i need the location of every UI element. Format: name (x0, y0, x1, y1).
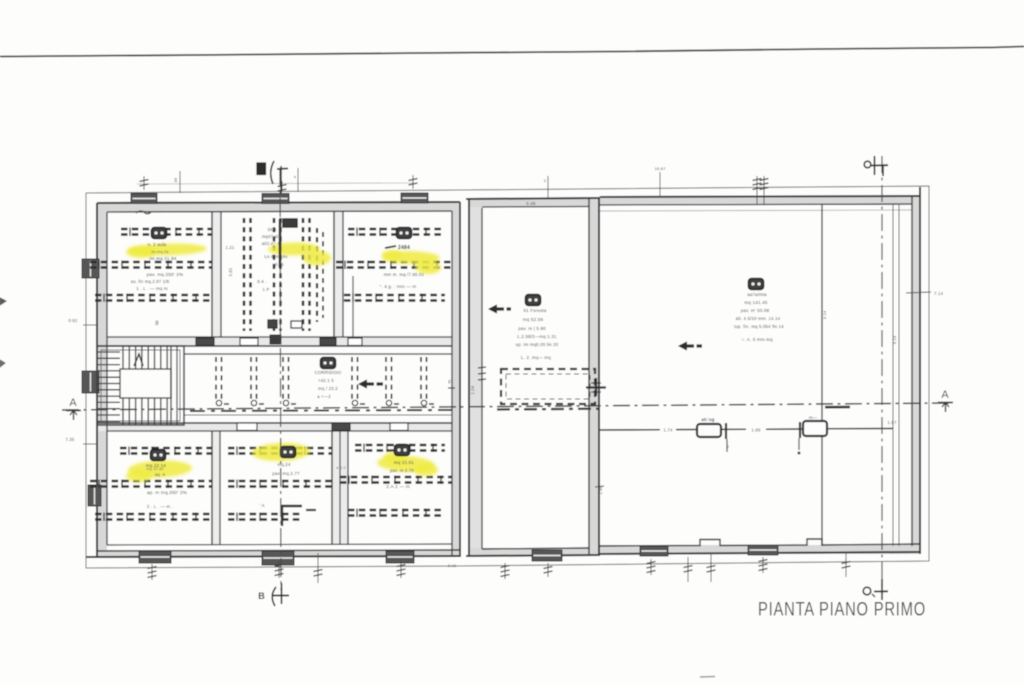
svg-text:16.67: 16.67 (654, 166, 666, 171)
svg-text:7.35: 7.35 (66, 437, 75, 442)
svg-text:mq 21.01: mq 21.01 (394, 460, 414, 465)
bottom center scan mark (700, 676, 715, 679)
corridor top wall door mark 2 (240, 338, 258, 346)
wall band hall right (912, 196, 920, 554)
room2 vertical dashed partial column 4 (316, 228, 318, 322)
middle room left wall inner (481, 208, 483, 549)
svg-text:pav. m | 5.80: pav. m | 5.80 (518, 326, 546, 331)
room6 dashed row 1 (355, 444, 445, 446)
left block bottom wall outer (86, 556, 460, 557)
middle room right wall outer (598, 197, 600, 556)
divider wall room4-room5 right line (219, 431, 221, 545)
corridor top wall door mark 3 (320, 338, 336, 346)
hall right wall inner (911, 197, 913, 546)
svg-text:aq. n: aq. n (155, 472, 166, 477)
divider wall room1-room2 right line (220, 211, 222, 337)
wall band bottom rooms top (97, 423, 452, 431)
page top rule line (0, 47, 1024, 57)
hall right wall tick 7.14 (906, 292, 931, 293)
top dimension chain line (137, 183, 413, 184)
middle room bottom wall outer (466, 555, 599, 556)
section marker B top flag (271, 161, 274, 184)
section marker B bottom flag (272, 587, 276, 606)
hall interior wall line seg4 (766, 428, 803, 430)
svg-text:8: 8 (155, 321, 159, 327)
bottom hall thin tick 3 (710, 553, 712, 582)
section marker A left arrow (66, 410, 81, 412)
svg-text:mm m. mq /7.65.01: mm m. mq /7.65.01 (384, 272, 425, 277)
room2 highlight yellow (268, 242, 320, 256)
wall band divider r2-r3 (334, 211, 343, 337)
bottom rooms top wall outer (97, 422, 452, 424)
room2 vertical dashed column 2 (273, 218, 276, 331)
wall band hall top (599, 196, 920, 205)
svg-text:1.21: 1.21 (226, 245, 235, 250)
room3 highlight yellow (382, 250, 440, 264)
svg-text:pav. mq.2.77: pav. mq.2.77 (272, 471, 300, 476)
left block rooms bottom inner line (107, 544, 452, 545)
left block right wall inner (451, 211, 453, 557)
svg-text:CORRIDOIO: CORRIDOIO (315, 370, 342, 375)
divider wall room5-room6 line c (347, 431, 349, 545)
svg-text:im mq 21.84: im mq 21.84 (150, 256, 177, 261)
hall door symbol right (803, 421, 827, 436)
middle room bottom wall inner (482, 548, 589, 549)
svg-text:B: B (258, 591, 265, 601)
room5 dashed row 1 right (296, 447, 332, 449)
svg-text:L.2.58/2—mq 1.31: L.2.58/2—mq 1.31 (517, 334, 557, 339)
section line B-B dash-dot (280, 168, 281, 590)
divider wall room5-room6 line a (331, 431, 333, 545)
room1 highlight yellow (129, 242, 207, 256)
room5 dashed row 3 (228, 513, 300, 515)
svg-text:A: A (69, 397, 77, 409)
divider wall room4-room5 left line (211, 431, 213, 545)
bottom wall tick 4 (400, 562, 402, 578)
top wall dim 16.67 (659, 172, 661, 197)
left block left wall inner (106, 212, 108, 545)
bottom hall tick 1 (650, 559, 652, 575)
svg-text:5.49: 5.49 (526, 201, 536, 206)
left block top wall outer line (97, 202, 460, 203)
svg-text:mq 141.45: mq 141.45 (744, 300, 767, 305)
svg-text:aa7a/mta: aa7a/mta (747, 292, 767, 297)
middle room top wall inner (482, 206, 589, 209)
corridor bottom wall door mark 3 (390, 423, 408, 431)
room3 dashed row 3 (344, 294, 445, 296)
wall band middle room right (589, 197, 599, 556)
wall band left block left (97, 203, 107, 557)
svg-text:“. 4.g. : mm — m: “. 4.g. : mm — m (380, 284, 417, 289)
window top wall left (131, 194, 157, 204)
room3 dashed row 1 (348, 228, 445, 230)
svg-text:mq47 al: mq47 al (262, 234, 278, 239)
section line A-A dash-dot (62, 403, 950, 410)
bottom rooms top wall inner (107, 430, 452, 432)
hall interior wall line seg5 (827, 428, 893, 430)
room1 dashed row 1 (121, 228, 212, 230)
left margin scan mark upper (0, 298, 6, 305)
svg-text:4.0 2: 4.0 2 (336, 466, 345, 470)
corridor door circles (216, 400, 221, 405)
svg-text:1.74: 1.74 (663, 428, 673, 433)
hall door symbol left (697, 424, 721, 437)
corridor arrow (358, 379, 367, 388)
hall bottom wall inner (600, 539, 920, 546)
top wall tick near room2 (297, 168, 299, 192)
svg-text:A: A (941, 389, 949, 401)
corridor vertical dashed columns (215, 357, 217, 399)
room1 top squiggle (136, 211, 151, 214)
hall bottom window left (640, 546, 668, 556)
svg-text:2.12: 2.12 (448, 563, 457, 568)
svg-text:7.14: 7.14 (934, 291, 944, 296)
hall interior wall line seg3 (721, 428, 746, 430)
left block top wall inner line (107, 211, 452, 212)
hall left wall line (598, 197, 600, 556)
middle room dashed storage rect inner (506, 374, 590, 399)
room5 highlight yellow (252, 442, 311, 462)
window bottom wall left (139, 551, 171, 563)
svg-text:Ln.4/mq.4u: Ln.4/mq.4u (265, 254, 288, 259)
room2 bottom dark mark b (291, 321, 302, 328)
divider wall room1-room2 left line (211, 211, 213, 337)
svg-text:+42.1 5: +42.1 5 (318, 378, 334, 383)
top wall tick right window (412, 175, 414, 189)
left block right wall outer (459, 202, 461, 557)
hall bottom wall outer (600, 552, 920, 554)
top wall double tick hall (756, 176, 758, 204)
svg-text:1 . L . — mq m: 1 . L . — mq m (136, 286, 168, 291)
svg-text:PIANTA PIANO PRIMO: PIANTA PIANO PRIMO (758, 600, 926, 621)
middle room top wall outer (466, 198, 599, 199)
svg-text:iup. fin. mq 5.054 fin 14: iup. fin. mq 5.054 fin 14 (734, 324, 784, 329)
room2 vertical dashed column 1 (243, 218, 246, 331)
room6 dashed row 3 (348, 509, 445, 511)
section marker A right arrow (938, 402, 953, 404)
corridor top wall door mark 4 (348, 338, 362, 346)
svg-text:a +—2: a +—2 (317, 394, 331, 399)
bottom hall tick 4 (762, 557, 764, 573)
room4 dashed row 1 (120, 447, 212, 449)
window left wall upper (82, 259, 99, 278)
svg-text:8.4 .: 8.4 . (257, 279, 267, 284)
room4 label symbol (151, 450, 166, 461)
svg-text:ap. m mq.250' 2%: ap. m mq.250' 2% (147, 490, 187, 495)
svg-text:45: 45 (173, 177, 178, 182)
svg-text:pav. m' 50.08: pav. m' 50.08 (741, 308, 770, 313)
top rooms bottom wall second line (97, 345, 452, 347)
hall bottom window right (748, 545, 778, 555)
section line A-A bold segment corridor (190, 410, 452, 411)
room5 label symbol (281, 447, 296, 458)
room2 vertical dashed column 3 (302, 218, 305, 331)
section line B bold segment room2 (279, 219, 282, 268)
hall arrow (678, 341, 687, 350)
wall band middle room top (469, 199, 599, 207)
room1 label symbol (152, 228, 167, 239)
svg-text:mq,24: mq,24 (277, 462, 291, 467)
hall right wall outer (919, 187, 921, 554)
section marker C top (864, 161, 871, 168)
section line A-A bold segment hall (825, 406, 850, 409)
room3 label symbol (397, 228, 412, 239)
stairwell (97, 346, 184, 425)
svg-text:F: F (448, 380, 451, 386)
corridor bottom wall door mark 2 (332, 423, 350, 431)
room2 dark box top (283, 219, 297, 227)
top wall thin dim line 1 (179, 171, 181, 193)
svg-text:1 P: 1 P (263, 287, 270, 292)
top wall tick middle room (547, 176, 549, 198)
svg-text:2484: 2484 (398, 245, 410, 251)
svg-text:1.97: 1.97 (887, 420, 897, 425)
svg-text:2 . L . — m .: 2 . L . — m . (147, 504, 173, 509)
wall band left block bottom (97, 550, 460, 557)
corridor top line (184, 353, 452, 355)
bottom tick middle room b (547, 563, 549, 577)
bottom wall tick 2 (278, 562, 280, 578)
window left wall room4 (88, 485, 101, 506)
svg-text:alt. 4.5/10 mm. 14.14: alt. 4.5/10 mm. 14.14 (736, 316, 781, 321)
room4 dashed row 2 (90, 480, 212, 482)
middle room arrow (488, 304, 497, 313)
svg-text:' A: ' A (259, 503, 265, 508)
bottom wall thin line 3 (317, 553, 319, 583)
section marker B top letter (257, 163, 266, 175)
room2 bottom wall dark block (270, 335, 281, 344)
svg-text:mq 52.56: mq 52.56 (523, 317, 544, 322)
middle room dashed storage rect (501, 369, 595, 404)
svg-text:s: s (294, 174, 296, 179)
hall label symbol (749, 279, 764, 290)
corridor top wall door mark 1 (196, 338, 214, 346)
section line C dash-dot (881, 156, 883, 594)
bottom wall tick 1 (151, 564, 153, 580)
middle room bottom window (532, 550, 562, 561)
svg-text:mq 22.a4: mq 22.a4 (146, 467, 163, 471)
room5 step symbol (282, 506, 302, 526)
svg-text:2: 2 (727, 445, 729, 449)
room4 dashed row 3 (95, 513, 212, 515)
svg-text:0.62: 0.62 (69, 318, 78, 323)
hall interior wall line seg2 (676, 429, 697, 431)
hall right inner pair line b (898, 205, 900, 546)
svg-text:im.mq.2a: im.mq.2a (151, 250, 169, 254)
svg-text:+8.06: +8.06 (272, 262, 284, 267)
hall interior wall line seg1 (600, 429, 660, 431)
section marker C bottom (863, 587, 871, 595)
svg-text:⋆. A. 5 mm mq: ⋆. A. 5 mm mq (741, 337, 773, 342)
room3 door line (352, 276, 354, 337)
wall band middle room left (469, 199, 482, 556)
wall band middle room bottom (469, 548, 599, 556)
wall band left block top (97, 203, 460, 212)
room6 dashed row 2 (340, 476, 452, 478)
svg-text:n. 2 aula: n. 2 aula (148, 242, 167, 247)
bottom tick middle room a (504, 563, 506, 579)
svg-text:su. fin mq.2.87 1/8: su. fin mq.2.87 1/8 (131, 279, 170, 284)
wall band top rooms bottom (107, 337, 452, 346)
room4 highlight yellow (128, 459, 193, 478)
window left wall lower (82, 371, 99, 393)
svg-text:34/h: 34/h (268, 227, 277, 232)
hall top wall inner (600, 204, 912, 205)
middle room right wall inner (588, 199, 590, 556)
wall band divider r4-r5 (212, 431, 220, 545)
bottom hall thin tick 2 (687, 557, 689, 582)
window bottom wall right (386, 551, 414, 563)
window top wall right (401, 193, 428, 203)
middle room left wall outer (468, 199, 470, 556)
divider wall room2-room3 left line (333, 211, 335, 337)
divider wall room5-room6 line b (339, 431, 341, 545)
svg-text:01 Foresta: 01 Foresta (524, 308, 547, 313)
top rooms bottom line (107, 336, 452, 338)
room5 dashed row 1 left (228, 447, 278, 449)
corridor bottom line (184, 414, 452, 416)
middle room label symbol (526, 295, 541, 306)
svg-text:3.81: 3.81 (228, 267, 233, 276)
top wall tick left window (143, 176, 145, 190)
bottom hall tick 5 (845, 553, 847, 577)
room5 small mark (306, 509, 316, 511)
svg-text:mq / 23.2: mq / 23.2 (318, 386, 338, 391)
room5 dashed row 2 (228, 480, 332, 482)
svg-text:m—: m— (809, 415, 818, 420)
divider wall room2-room3 right line (342, 211, 344, 337)
svg-text:3.14: 3.14 (822, 310, 827, 319)
svg-text:2.A.1 — m: 2.A.1 — m (386, 484, 410, 489)
wall band divider r5-r6 (332, 431, 348, 545)
corridor label symbol (321, 358, 336, 369)
window bottom wall center (262, 551, 294, 565)
svg-text:pav. m 2.70: pav. m 2.70 (390, 468, 414, 473)
room6 highlight yellow (377, 454, 436, 473)
corridor bottom wall door mark 1 (237, 423, 257, 431)
svg-text:1.04: 1.04 (470, 385, 475, 394)
svg-text:up. im mq5.05 lin 20: up. im mq5.05 lin 20 (516, 342, 559, 347)
left block bottom wall inner (97, 550, 460, 551)
svg-text:a0.’ug: a0.’ug (701, 417, 714, 422)
middle room left wall tick (478, 367, 486, 368)
room2 bottom dark mark a (268, 320, 277, 328)
room6 label symbol (395, 445, 410, 456)
left block left wall outer (96, 203, 98, 557)
room3 dashed row 2 (336, 261, 452, 263)
room1 dashed row 2 (90, 261, 212, 263)
hall right inner pair line a (892, 205, 894, 546)
svg-text:1.95: 1.95 (751, 427, 761, 432)
wall band divider r1-r2 (212, 211, 221, 337)
wall band hall bottom (599, 545, 920, 554)
svg-text:pav. mq.250' 2%: pav. mq.250' 2% (147, 272, 184, 277)
wall band left block right (452, 202, 460, 557)
window top wall center (262, 194, 289, 204)
hall top wall outer (600, 196, 920, 197)
hall interior divider vertical (821, 205, 823, 546)
left margin scan mark lower (0, 360, 5, 367)
section line A-A bold segment middle (497, 408, 600, 411)
plan outer boundary thin line (86, 186, 929, 568)
hall top inner faint line (600, 210, 912, 211)
svg-text:3.14: 3.14 (892, 335, 897, 344)
room1 dashed row 3 (95, 294, 212, 296)
svg-text:L. 2. mq— mq: L. 2. mq— mq (521, 355, 551, 360)
middle room target symbol (586, 386, 606, 388)
